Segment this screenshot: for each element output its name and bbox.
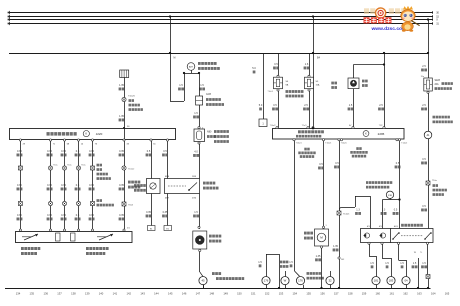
- connector T14a/5 col 339: [337, 211, 341, 215]
- svg-text:W: W: [284, 279, 287, 283]
- fuel injection ECU J220 box: [10, 129, 176, 140]
- terminal 176b annotation: [307, 272, 310, 275]
- svg-text:152: 152: [265, 292, 270, 296]
- bus left end ticks: [9, 11, 11, 14]
- wire box2 pin a to terminal 04: [398, 243, 400, 261]
- svg-text:1.35: 1.35: [316, 255, 321, 258]
- terminal W: [285, 271, 287, 276]
- svg-text:A704: A704: [367, 225, 371, 228]
- wire col 199 segment A: [199, 73, 201, 96]
- svg-text:2.5: 2.5: [304, 104, 308, 107]
- terminal circle 75a: [424, 131, 432, 139]
- svg-text:0.5: 0.5: [422, 158, 426, 161]
- fuse S4 col 278: [278, 53, 280, 78]
- wire col 64 ECU J220 pin 68 to throttle sensor: [64, 140, 66, 230]
- secondary air pump motor V101: [193, 231, 207, 249]
- svg-text:1.3: 1.3: [356, 209, 360, 212]
- svg-text:0.35: 0.35: [163, 211, 168, 214]
- wire col 428 segment to fuse: [428, 53, 430, 78]
- terminal stub 266: [266, 285, 268, 288]
- wire col 199 segment B: [199, 105, 201, 127]
- svg-text:2295: 2295: [378, 132, 385, 136]
- svg-text:148: 148: [210, 292, 215, 296]
- ground strap box col 167: [164, 226, 172, 231]
- svg-text:0.5: 0.5: [394, 209, 398, 212]
- svg-text:0.35: 0.35: [119, 214, 124, 217]
- svg-text:T10a/2: T10a/2: [128, 169, 135, 171]
- svg-text:156: 156: [320, 292, 325, 296]
- wire box1 pin a to terminal 181: [369, 243, 371, 257]
- fuse S5 col 309: [309, 53, 311, 78]
- wire col 339: [339, 141, 341, 288]
- wire col 50 ECU J220 pin 71 to throttle sensor: [50, 140, 52, 230]
- wire col 167 ECU to relay: [167, 140, 169, 179]
- svg-text:1.5: 1.5: [370, 262, 374, 265]
- svg-text:135: 135: [30, 292, 35, 296]
- node junction col 170 on 30a: [169, 52, 171, 54]
- watermark logo: [376, 8, 386, 18]
- svg-text:T14a/5: T14a/5: [341, 143, 347, 145]
- J293 bottom pins: [293, 139, 295, 141]
- svg-text:1.5: 1.5: [194, 211, 198, 214]
- svg-text:J220: J220: [96, 132, 103, 136]
- wire col 124 lower: [124, 102, 126, 128]
- throttle sensor label left: [21, 247, 24, 250]
- power bus line 31: [9, 23, 433, 25]
- wire col 78 ECU J220 pin 14 to throttle sensor: [78, 140, 80, 230]
- throttle sensor label right: [86, 247, 89, 250]
- antenna tap W TL: [418, 258, 420, 288]
- svg-text:1.5: 1.5: [289, 261, 293, 264]
- wire to headlamp motor pin b: [382, 200, 384, 229]
- watermark red text: [364, 17, 370, 23]
- svg-text:157: 157: [334, 292, 339, 296]
- svg-text:1.5: 1.5: [400, 262, 404, 265]
- annotation signal distribution box b: [356, 147, 359, 150]
- svg-text:K: K: [365, 132, 367, 136]
- distribution wire 30a: [9, 53, 428, 55]
- svg-text:T10c/5: T10c/5: [268, 91, 274, 93]
- svg-text:1: 1: [326, 225, 327, 227]
- wire horizontal 170-184: [170, 101, 184, 103]
- svg-text:TL: TL: [420, 252, 422, 254]
- svg-text:5.0: 5.0: [259, 104, 263, 107]
- connector col 428 bottom: [426, 275, 430, 279]
- svg-text:0.35: 0.35: [47, 184, 52, 187]
- pin 2 of N80: [198, 127, 200, 129]
- svg-text:143: 143: [140, 292, 145, 296]
- fuse S228 col 428: [424, 78, 433, 91]
- svg-text:183: 183: [389, 279, 394, 283]
- svg-text:1.5: 1.5: [258, 261, 262, 264]
- svg-text:1.5: 1.5: [422, 262, 426, 265]
- svg-text:T10a/1: T10a/1: [296, 143, 302, 145]
- svg-text:149: 149: [223, 292, 228, 296]
- motor symbol a: [364, 233, 369, 238]
- terminal 30 tag box col 124: [120, 70, 129, 78]
- connector T10a/5 col 124: [122, 97, 126, 101]
- wire col 294: [294, 141, 296, 271]
- terminal stub 330: [330, 285, 332, 288]
- switch F38: [386, 191, 393, 198]
- wire col 151 ECU pin 61 to relay: [151, 140, 153, 179]
- watermark mascot: [403, 6, 413, 10]
- svg-text:160: 160: [376, 292, 381, 296]
- svg-text:154: 154: [293, 292, 298, 296]
- connector upper col 20: [18, 166, 22, 170]
- svg-text:2.5: 2.5: [422, 65, 426, 68]
- wire col 399 from ECU: [399, 141, 401, 229]
- svg-text:1.3: 1.3: [382, 209, 386, 212]
- svg-text:0.35: 0.35: [119, 184, 124, 187]
- svg-text:A704: A704: [379, 225, 383, 228]
- connector lower col 64: [62, 201, 66, 205]
- V2 annotation left: [331, 82, 334, 85]
- annotation signal distribution box a: [304, 148, 307, 151]
- wire col 151 relay to ground strap: [151, 194, 153, 226]
- svg-text:0.5: 0.5: [396, 162, 400, 165]
- svg-text:0.5: 0.5: [273, 104, 277, 107]
- svg-text:0.5: 0.5: [76, 184, 80, 187]
- J220 label: [47, 132, 50, 136]
- svg-text:165: 165: [445, 292, 450, 296]
- solenoid valve N80: [194, 129, 205, 142]
- wire col 124 upper: [124, 78, 126, 98]
- wire bus-X to col 428: [428, 20, 430, 54]
- wire col 428 lower: [428, 185, 430, 229]
- svg-text:0.5: 0.5: [163, 150, 167, 153]
- wire horizontal 184-199: [184, 73, 199, 75]
- svg-text:1.5: 1.5: [179, 84, 183, 87]
- svg-text:144: 144: [154, 292, 159, 296]
- connector upper col 64: [62, 166, 66, 170]
- wire col 384: [384, 53, 386, 128]
- jumper bridge: [266, 254, 279, 256]
- potentiometer arrow right: [99, 234, 113, 240]
- svg-text:150: 150: [237, 292, 242, 296]
- svg-text:N80: N80: [207, 131, 212, 134]
- AC pressure switch box: [391, 229, 434, 243]
- wire col 428 middle: [428, 139, 430, 181]
- radiator fan control unit J293 box: [273, 129, 405, 140]
- svg-text:20A: 20A: [435, 83, 440, 86]
- svg-text:1.35: 1.35: [119, 115, 124, 118]
- secondary air pump relay contact box: [165, 179, 200, 194]
- annotation above terminal: [433, 116, 436, 119]
- svg-text:T8a/3: T8a/3: [128, 205, 134, 207]
- wire col 199 segment D: [199, 194, 201, 230]
- wire col 170 from bus 15: [170, 17, 172, 54]
- svg-text:S228: S228: [435, 80, 441, 82]
- svg-text:137: 137: [57, 292, 62, 296]
- switch symbol a: [393, 233, 399, 240]
- terminal 32: [330, 271, 332, 276]
- wire col 263 from 30a to plug: [263, 53, 265, 119]
- power bus line 15: [9, 16, 433, 18]
- svg-text:0.35: 0.35: [119, 150, 124, 153]
- wire box1 pin b to terminal 183: [382, 243, 384, 259]
- motor symbol b: [380, 233, 385, 238]
- svg-text:146: 146: [182, 292, 187, 296]
- AC pressure switch box label: [401, 224, 404, 227]
- connector lower col 20: [18, 202, 22, 206]
- svg-text:T10a/5: T10a/5: [325, 143, 331, 145]
- power bus line X: [9, 19, 433, 21]
- svg-text:140: 140: [99, 292, 104, 296]
- svg-text:4.0: 4.0: [194, 151, 198, 154]
- svg-text:543: 543: [341, 259, 344, 261]
- svg-text:134: 134: [16, 292, 21, 296]
- svg-text:5.0: 5.0: [252, 67, 256, 70]
- connector T10a/2 col 124: [122, 166, 126, 170]
- wire col 124 through ECU to throttle box: [124, 128, 126, 229]
- secondary air pump relay J299 coil box: [147, 179, 161, 194]
- resistor elements: [56, 233, 61, 241]
- wire col 184: [184, 73, 186, 101]
- svg-text:142: 142: [126, 292, 131, 296]
- svg-text:164: 164: [431, 292, 436, 296]
- V101 annotation: [209, 235, 212, 238]
- svg-text:A7: A7: [349, 124, 351, 127]
- relay J299 annotation left: [128, 181, 131, 184]
- svg-text:1.35: 1.35: [333, 245, 338, 248]
- F38 annotation: [366, 181, 369, 184]
- headlamp range motor box: [361, 229, 392, 243]
- wire col 20 ECU J220 pin 29 to throttle sensor: [20, 140, 22, 230]
- svg-text:138: 138: [71, 292, 76, 296]
- wire bus-15 to ECU J293 pin (col 313): [313, 17, 315, 128]
- svg-text:163: 163: [417, 292, 422, 296]
- svg-text:0.35: 0.35: [89, 214, 94, 217]
- wire col 428 below fuse: [428, 91, 430, 131]
- wire box2 right pin down: [427, 243, 429, 275]
- terminal stub 203: [203, 285, 205, 288]
- svg-text:1.5: 1.5: [349, 104, 353, 107]
- svg-text:45: 45: [201, 279, 205, 283]
- connector upper col 92: [91, 166, 95, 170]
- svg-text:M: M: [174, 58, 176, 60]
- fresh air blower V2 box col 353: [354, 64, 385, 66]
- wire col 199 to ground terminal: [199, 249, 201, 251]
- svg-text:0.5: 0.5: [76, 214, 80, 217]
- svg-text:153: 153: [279, 292, 284, 296]
- terminal 176b: [296, 277, 304, 285]
- svg-text:T2/2: T2/2: [379, 125, 383, 127]
- svg-text:0.5: 0.5: [422, 205, 426, 208]
- power bus line 30: [9, 12, 433, 14]
- svg-text:A014: A014: [394, 225, 398, 228]
- svg-text:0.5: 0.5: [274, 63, 278, 66]
- annotation secondary air right of col 124: [134, 184, 137, 187]
- svg-text:0.5: 0.5: [335, 162, 339, 165]
- potentiometer arrow left: [24, 234, 38, 240]
- connector T10a/10 col 428: [426, 181, 430, 185]
- relay annotation right: [203, 182, 206, 185]
- svg-text:147: 147: [196, 292, 201, 296]
- branch col 339 to headlamp motor: staircase: [340, 208, 342, 210]
- svg-text:0.35: 0.35: [61, 184, 66, 187]
- annotation right of col 96 connectors: [97, 164, 100, 167]
- pin below N80: [198, 142, 200, 144]
- ground terminal 45: [199, 277, 207, 285]
- svg-text:0.35: 0.35: [89, 150, 94, 153]
- connector lower col 50: [48, 201, 52, 205]
- svg-text:C/28: C/28: [206, 94, 212, 96]
- svg-text:1.5: 1.5: [194, 112, 198, 115]
- current track rail: [5, 288, 431, 290]
- wire col 92 ECU J220 pin 73 to throttle sensor: [92, 140, 94, 230]
- svg-text:0.35: 0.35: [61, 150, 66, 153]
- wire col 167 relay to ground strap: [167, 194, 169, 226]
- coolant circulation pump V50: [315, 229, 329, 246]
- wire col 170 down: [170, 53, 172, 101]
- svg-text:K: K: [85, 132, 87, 136]
- svg-text:0.5: 0.5: [319, 163, 323, 166]
- svg-text:0.35: 0.35: [89, 184, 94, 187]
- svg-text:32: 32: [328, 279, 332, 283]
- svg-text:T14a/2: T14a/2: [401, 143, 407, 145]
- wire col 199 segment C: [199, 144, 201, 179]
- throttle valve potentiometer unit box: [16, 232, 133, 243]
- svg-text:0.5: 0.5: [76, 150, 80, 153]
- svg-text:161: 161: [389, 292, 394, 296]
- bus right end labels: [432, 11, 434, 14]
- three-way valve A97: [187, 63, 195, 71]
- A97 annotation: [198, 62, 201, 65]
- watermark ghost text: [364, 8, 369, 14]
- svg-text:145: 145: [168, 292, 173, 296]
- svg-text:0.35: 0.35: [47, 150, 52, 153]
- connector T8a/3 col 124: [122, 202, 126, 206]
- terminal 176: [262, 277, 270, 285]
- J293 top pins: [276, 127, 278, 129]
- V2 annotation right: [362, 80, 365, 83]
- svg-text:0.5: 0.5: [147, 150, 151, 153]
- svg-text:159: 159: [362, 292, 367, 296]
- svg-text:0.35: 0.35: [17, 184, 22, 187]
- svg-text:141: 141: [113, 292, 118, 296]
- svg-text:158: 158: [348, 292, 353, 296]
- ground terminal annotation: [212, 272, 215, 275]
- svg-text:176: 176: [264, 279, 269, 283]
- connector upper col 78: [76, 166, 80, 170]
- svg-text:1.35: 1.35: [119, 84, 124, 87]
- svg-text:162: 162: [403, 292, 408, 296]
- svg-text:176: 176: [298, 279, 303, 283]
- svg-text:0.35: 0.35: [146, 211, 151, 214]
- svg-text:2.5: 2.5: [422, 104, 426, 107]
- svg-text:0.35: 0.35: [47, 214, 52, 217]
- svg-text:1.5: 1.5: [200, 84, 204, 87]
- plug box col 263: [259, 119, 267, 127]
- svg-text:04: 04: [404, 279, 408, 283]
- J293 label: [298, 130, 301, 133]
- connector T8a/1: [196, 96, 203, 105]
- svg-text:0.35: 0.35: [17, 214, 22, 217]
- svg-text:151: 151: [251, 292, 256, 296]
- svg-text:139: 139: [85, 292, 90, 296]
- svg-text:T10a: T10a: [432, 180, 438, 182]
- svg-text:10A: 10A: [316, 84, 320, 87]
- svg-text:181: 181: [374, 279, 379, 283]
- terminal stub 285: [285, 285, 287, 288]
- node at ECU top: [123, 127, 125, 129]
- V50 annotation left: [304, 232, 307, 235]
- terminal stub 303: [303, 285, 305, 288]
- terminal stub 406: [406, 285, 408, 288]
- F38 tee: [390, 199, 392, 200]
- wire col 323 coolant pump: [323, 141, 325, 228]
- terminal stub 391: [391, 285, 393, 288]
- ground strap box col 151: [148, 226, 156, 231]
- svg-text:T10a/2: T10a/2: [270, 125, 276, 127]
- svg-text:2.5: 2.5: [379, 104, 383, 107]
- svg-text:T14a/5: T14a/5: [343, 214, 350, 216]
- terminal stub 376: [376, 285, 378, 288]
- connector lower col 78: [76, 201, 80, 205]
- svg-text:1.5: 1.5: [413, 262, 417, 265]
- connector upper col 50: [48, 166, 52, 170]
- svg-text:136: 136: [43, 292, 48, 296]
- switch symbol b: [425, 233, 431, 240]
- svg-text:155: 155: [306, 292, 311, 296]
- svg-text:0.35: 0.35: [61, 214, 66, 217]
- svg-text:0.35: 0.35: [17, 150, 22, 153]
- svg-text:1.5: 1.5: [385, 262, 389, 265]
- svg-text:1.6: 1.6: [305, 63, 309, 66]
- svg-text:T2a/1: T2a/1: [302, 125, 307, 127]
- connector lower col 92: [91, 202, 95, 206]
- svg-text:T10a/5: T10a/5: [128, 96, 136, 98]
